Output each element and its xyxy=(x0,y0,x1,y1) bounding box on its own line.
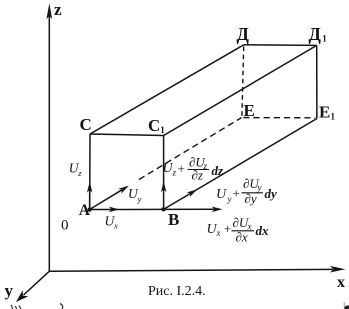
wire edge D-D1 xyxy=(244,44,317,47)
label U_x + dUx/dx dx xyxy=(207,215,270,245)
x-axis arrowhead xyxy=(330,266,346,273)
svg-text:Е: Е xyxy=(319,103,330,122)
y-axis arrowhead xyxy=(13,290,28,305)
svg-text:C: C xyxy=(148,116,160,135)
svg-text:x: x xyxy=(216,228,221,238)
svg-text:1: 1 xyxy=(322,34,327,44)
svg-text:1: 1 xyxy=(331,112,336,122)
vector U_y' arrowhead at B xyxy=(187,187,199,197)
x-axis xyxy=(49,269,333,271)
z-axis arrowhead xyxy=(46,3,52,19)
vector U_x' shaft from B xyxy=(164,208,216,210)
label U_z + dUz/dz dz xyxy=(163,155,225,183)
wire edge D-E dashed xyxy=(242,47,244,117)
svg-text:z: z xyxy=(54,0,62,19)
svg-text:+: + xyxy=(224,221,231,236)
svg-text:dx: dx xyxy=(256,223,270,238)
svg-text:U: U xyxy=(216,187,227,202)
svg-text:A: A xyxy=(79,202,91,219)
wire edge B-C1 xyxy=(163,136,165,210)
svg-text:1: 1 xyxy=(160,125,165,135)
stray cut-off print marks bottom left xyxy=(11,305,21,309)
svg-text:dy: dy xyxy=(265,186,278,201)
wire edge D1-E1 xyxy=(316,45,318,118)
y-axis xyxy=(24,271,50,295)
vector U_z arrowhead xyxy=(87,182,93,193)
svg-text:y: y xyxy=(227,194,232,204)
vector U_y arrowhead xyxy=(118,183,130,193)
wire edge B-E1 xyxy=(164,119,317,210)
vector U_z' arrowhead at B xyxy=(161,181,167,192)
svg-text:+: + xyxy=(178,161,185,176)
vector U_z shaft xyxy=(89,189,91,210)
z-axis xyxy=(48,15,50,271)
wire edge A-C xyxy=(89,134,91,210)
wire edge A-E dashed part xyxy=(139,118,242,180)
svg-text:x: x xyxy=(337,274,345,291)
svg-text:dz: dz xyxy=(212,163,225,178)
svg-text:+: + xyxy=(233,186,240,201)
wire edge A-B xyxy=(90,208,164,210)
wire edge C1-D1 xyxy=(164,45,317,135)
wire edge C-D xyxy=(90,45,244,134)
wire edge E-E1 dashed xyxy=(243,117,315,119)
svg-text:Рис. I.2.4.: Рис. I.2.4. xyxy=(148,284,206,299)
label U_y + dUy/dy dy xyxy=(216,176,277,206)
svg-text:∂z: ∂z xyxy=(192,168,203,183)
svg-text:y: y xyxy=(5,281,14,300)
svg-text:y: y xyxy=(137,194,142,204)
svg-text:Д: Д xyxy=(237,24,250,44)
svg-text:z: z xyxy=(77,168,82,178)
svg-text:Д: Д xyxy=(309,24,322,44)
svg-text:Е: Е xyxy=(244,101,255,120)
svg-text:0: 0 xyxy=(61,217,69,233)
svg-text:∂x: ∂x xyxy=(236,230,248,245)
wire edge C-C1 xyxy=(90,134,164,136)
svg-text:B: B xyxy=(168,210,179,229)
vector U_x arrowhead xyxy=(109,207,120,213)
svg-text:z: z xyxy=(172,168,177,178)
node A dot xyxy=(88,208,92,212)
vector U_x' arrowhead at B xyxy=(212,207,223,213)
svg-text:∂y: ∂y xyxy=(245,191,257,206)
stray print blob bottom right xyxy=(344,305,349,309)
node B dot xyxy=(161,207,165,211)
svg-text:y: y xyxy=(257,183,262,193)
svg-text:x: x xyxy=(113,221,118,231)
svg-text:C: C xyxy=(80,115,92,134)
vector U_y shaft xyxy=(90,190,123,210)
